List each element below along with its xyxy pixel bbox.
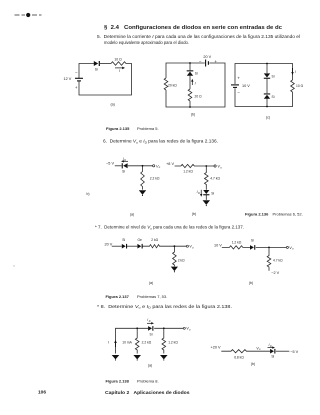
- svg-text:I: I: [119, 69, 120, 73]
- svg-text:+: +: [214, 59, 217, 64]
- svg-text:+8 V: +8 V: [166, 162, 174, 166]
- svg-text:Si: Si: [271, 355, 274, 359]
- svg-text:2.2 kΩ: 2.2 kΩ: [142, 340, 152, 344]
- svg-text:20 kΩ: 20 kΩ: [168, 84, 177, 88]
- svg-text:+20 V: +20 V: [211, 346, 221, 350]
- svg-text:+: +: [75, 85, 78, 90]
- svg-text:D: D: [198, 192, 200, 195]
- svg-text:o: o: [292, 248, 294, 251]
- svg-text:4.7 kΩ: 4.7 kΩ: [273, 259, 283, 263]
- svg-text:o: o: [159, 166, 161, 169]
- svg-text:Problemas 6, 52.: Problemas 6, 52.: [273, 212, 303, 217]
- svg-text:−5 V: −5 V: [290, 350, 298, 354]
- svg-text:Si: Si: [272, 74, 275, 78]
- svg-text:b): b): [87, 192, 90, 196]
- svg-text:−: −: [237, 90, 240, 95]
- svg-text:Si: Si: [122, 169, 125, 173]
- svg-text:10 mA: 10 mA: [122, 340, 132, 344]
- svg-text:Figura 2.135: Figura 2.135: [106, 126, 130, 131]
- svg-text:10 V: 10 V: [214, 244, 222, 248]
- svg-text:(b): (b): [191, 113, 195, 117]
- svg-text:Si: Si: [95, 67, 98, 71]
- svg-text:* 7. Determine el nivel de Vo: * 7. Determine el nivel de Vo para cada …: [95, 225, 244, 231]
- svg-text:Capítulo 2 Aplicaciones de d: Capítulo 2 Aplicaciones de diodos: [105, 390, 190, 395]
- svg-text:2 kΩ: 2 kΩ: [178, 258, 185, 262]
- svg-text:Si: Si: [195, 72, 198, 76]
- svg-text:Figura 2.138: Figura 2.138: [106, 379, 130, 384]
- svg-text:106: 106: [38, 390, 46, 396]
- svg-text:5. Determine la corriente I p: 5. Determine la corriente I para cada un…: [97, 34, 300, 39]
- svg-text:1.2 kΩ: 1.2 kΩ: [168, 340, 178, 344]
- svg-text:2 kΩ: 2 kΩ: [151, 238, 158, 242]
- svg-text:* 8. Determine Vo e ID para l: * 8. Determine Vo e ID para las redes de…: [97, 304, 232, 310]
- svg-text:Problema 5.: Problema 5.: [137, 126, 159, 131]
- svg-text:(a): (a): [110, 102, 114, 106]
- svg-text:(b): (b): [192, 212, 196, 216]
- svg-text:+: +: [237, 76, 240, 81]
- svg-text:modelo equivalente aproximado: modelo equivalente aproximado para el di…: [104, 40, 189, 45]
- svg-text:1.2 kΩ: 1.2 kΩ: [232, 241, 242, 245]
- svg-text:I: I: [295, 70, 296, 74]
- svg-text:o: o: [189, 329, 191, 332]
- svg-text:Problemas 7, 53.: Problemas 7, 53.: [137, 294, 167, 299]
- svg-text:−: −: [199, 59, 202, 64]
- svg-text:Si: Si: [272, 95, 275, 99]
- svg-text:Si: Si: [211, 191, 214, 195]
- svg-text:Figura 2.137: Figura 2.137: [106, 294, 130, 299]
- svg-text:I: I: [108, 340, 109, 344]
- svg-text:Figura 2.136: Figura 2.136: [245, 212, 269, 217]
- svg-text:o: o: [220, 166, 222, 169]
- svg-text:Problema 8.: Problema 8.: [137, 379, 159, 384]
- svg-text:D: D: [149, 320, 151, 323]
- svg-text:20 V: 20 V: [105, 242, 113, 246]
- svg-text:−5 V: −5 V: [106, 162, 114, 166]
- svg-text:o: o: [192, 247, 194, 250]
- svg-text:Si: Si: [251, 239, 254, 243]
- svg-text:§ 2.4 Configuraciones de di: § 2.4 Configuraciones de diodos en serie…: [104, 25, 282, 31]
- svg-text:6.8 kΩ: 6.8 kΩ: [234, 355, 244, 359]
- svg-text:1.2 kΩ: 1.2 kΩ: [183, 170, 193, 174]
- svg-text:I: I: [195, 82, 196, 86]
- svg-text:−2 V: −2 V: [271, 271, 279, 275]
- svg-text:2.2 kΩ: 2.2 kΩ: [150, 176, 160, 180]
- svg-text:(b): (b): [249, 281, 253, 285]
- svg-text:4.7 kΩ: 4.7 kΩ: [210, 176, 220, 180]
- svg-text:(a): (a): [148, 363, 152, 367]
- svg-text:(c): (c): [266, 115, 270, 119]
- svg-text:10 V: 10 V: [242, 84, 250, 88]
- svg-text:12 V: 12 V: [64, 77, 72, 81]
- svg-text:−: −: [75, 70, 78, 75]
- svg-text:6. Determine Vo e ID para las: 6. Determine Vo e ID para las redes de l…: [103, 139, 218, 145]
- svg-text:20 Ω: 20 Ω: [195, 94, 203, 98]
- svg-text:o: o: [259, 348, 261, 351]
- svg-text:(b): (b): [251, 362, 255, 366]
- svg-text:10 Ω: 10 Ω: [114, 57, 122, 61]
- svg-text:Ge: Ge: [137, 238, 142, 242]
- svg-text:Si: Si: [122, 238, 125, 242]
- svg-text:20 V: 20 V: [203, 55, 211, 59]
- svg-text:10 Ω: 10 Ω: [296, 84, 304, 88]
- svg-text:(a): (a): [130, 212, 134, 216]
- svg-text:Si: Si: [150, 332, 153, 336]
- svg-text:(a): (a): [149, 281, 153, 285]
